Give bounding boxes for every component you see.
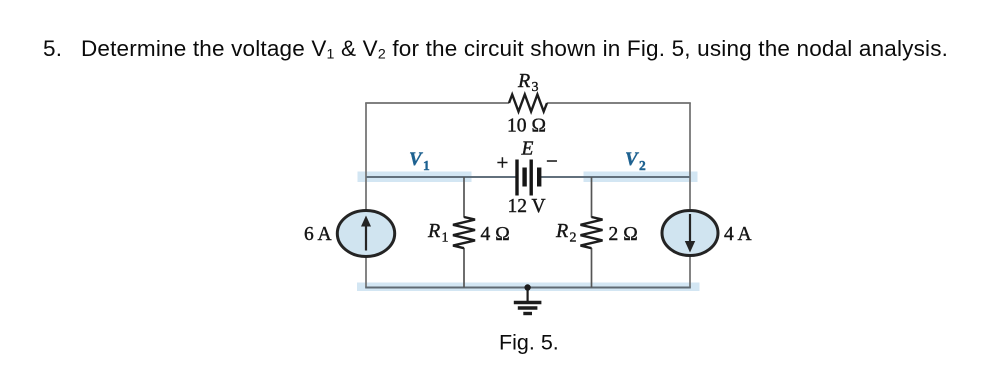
battery E (12V source)	[517, 160, 539, 196]
wire: right vertical from top to 4A source	[689, 103, 691, 211]
node label V2	[625, 149, 646, 173]
svg-text:Fig. 5.: Fig. 5.	[499, 331, 559, 355]
label R2	[555, 220, 577, 246]
wire: R2 branch upper segment	[591, 177, 593, 218]
value label 4 A	[724, 224, 752, 245]
value label 6 A	[304, 224, 332, 245]
svg-text:V: V	[625, 149, 639, 170]
svg-text:V: V	[409, 149, 423, 170]
wire: top-left vertical (left side of loop)	[365, 103, 367, 211]
resistor R1 (vertical zigzag)	[453, 217, 475, 248]
svg-text:10 Ω: 10 Ω	[507, 116, 546, 137]
current source I1 (6 A, arrow up)	[337, 211, 394, 257]
label E	[521, 139, 534, 160]
value label 10 Ohm	[507, 116, 546, 137]
wire: left below 6A source to bottom	[365, 256, 367, 287]
svg-text:3: 3	[532, 80, 539, 95]
svg-text:4 A: 4 A	[724, 224, 752, 245]
current source I2 (4 A, arrow down)	[662, 211, 718, 256]
resistor R3 (horizontal zigzag)	[509, 95, 547, 112]
ground symbol	[514, 288, 542, 314]
node V2 highlight bar	[584, 172, 698, 183]
svg-text:6 A: 6 A	[304, 224, 332, 245]
polarity plus sign	[497, 151, 509, 175]
wire: node V2 horizontal (right of battery)	[541, 176, 690, 178]
resistor R2 (vertical zigzag)	[581, 217, 603, 248]
problem statement text	[43, 36, 948, 62]
polarity minus sign	[546, 149, 558, 173]
svg-text:2: 2	[639, 158, 646, 173]
wire: node V1 horizontal (left of battery)	[366, 176, 516, 178]
svg-text:R: R	[517, 70, 530, 92]
wire: top horizontal left of R3	[365, 102, 509, 104]
svg-text:12 V: 12 V	[508, 196, 546, 217]
label R3	[517, 70, 539, 95]
wire: R2 branch lower segment	[591, 248, 593, 288]
node V1 highlight bar	[358, 172, 472, 183]
wire: R1 branch lower segment	[463, 248, 465, 288]
caption Fig. 5.	[499, 331, 559, 355]
svg-text:4 Ω: 4 Ω	[481, 224, 511, 245]
value label 2 Ohm	[609, 224, 639, 245]
wire: bottom horizontal (reference node)	[365, 287, 691, 289]
svg-text:R: R	[427, 220, 440, 242]
value label 12 V	[508, 196, 546, 217]
wire: right below 4A source to bottom	[689, 255, 691, 287]
svg-text:R: R	[555, 220, 568, 242]
svg-text:2 Ω: 2 Ω	[609, 224, 639, 245]
value label 4 Ohm	[481, 224, 511, 245]
label R1	[427, 220, 449, 246]
wire: top horizontal right of R3	[547, 102, 691, 104]
svg-text:1: 1	[442, 231, 449, 246]
svg-text:+: +	[497, 151, 509, 175]
svg-text:2: 2	[570, 231, 577, 246]
wire: R1 branch upper segment	[463, 177, 465, 218]
ground-net highlight bar	[357, 283, 700, 292]
svg-text:E: E	[521, 139, 534, 160]
svg-text:−: −	[546, 149, 558, 173]
junction dot at ground tap	[524, 284, 530, 290]
svg-text:1: 1	[423, 158, 430, 173]
node label V1	[409, 149, 430, 173]
